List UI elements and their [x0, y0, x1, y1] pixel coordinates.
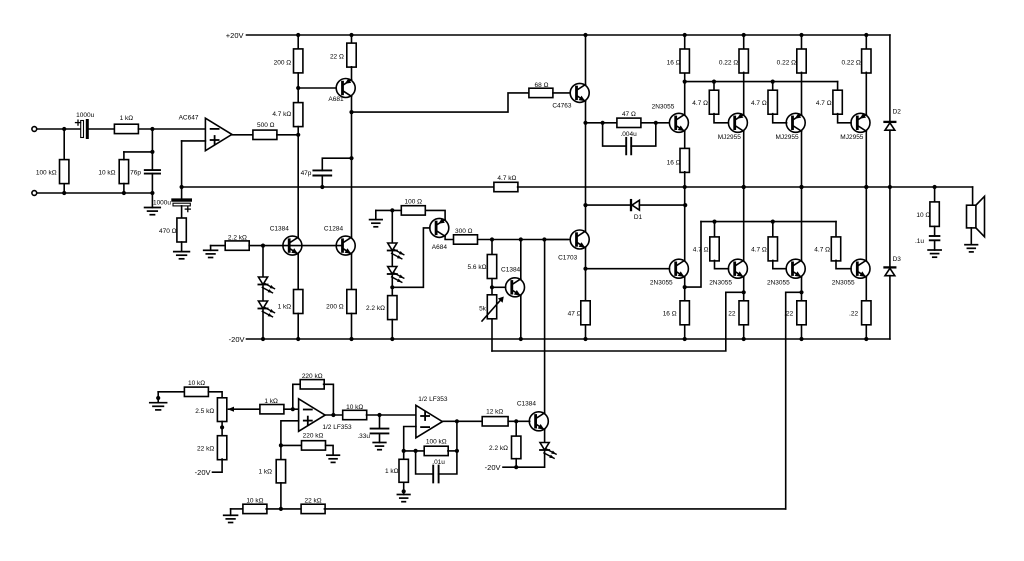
resistor 12 kOhm	[482, 417, 508, 426]
svg-text:2.2 kΩ: 2.2 kΩ	[366, 305, 385, 312]
node top bus tap #2	[771, 80, 775, 84]
wire top bias bus	[685, 81, 838, 83]
ground speaker	[965, 245, 978, 252]
wire bottom line to sense	[324, 508, 785, 510]
svg-text:2N3055: 2N3055	[767, 279, 790, 286]
transistor Q16 C1384 limiter (NPN)	[529, 412, 548, 431]
ground input	[145, 208, 161, 215]
wire 10k-22k bottom	[266, 508, 302, 510]
capacitor 1000u input	[89, 128, 115, 130]
ground 100R	[376, 209, 402, 211]
ground 1k opamp2	[397, 495, 410, 502]
svg-text:C1284: C1284	[324, 226, 344, 233]
svg-text:4.7 Ω: 4.7 Ω	[692, 100, 708, 107]
resistor 0.22 Ohm top #3	[865, 35, 867, 50]
svg-text:1/2 LF353: 1/2 LF353	[418, 396, 448, 403]
ground bottom line	[230, 509, 232, 515]
svg-text:D2: D2	[893, 109, 902, 116]
op-amp U1 AC647	[205, 118, 232, 151]
pot 5k arrow	[482, 299, 502, 322]
node sense tap 1	[742, 290, 746, 294]
wire bottom driver base row	[586, 268, 670, 270]
wire 68R to C4763 base	[553, 92, 570, 94]
LED chain B	[391, 210, 393, 243]
resistor 10 kOhm opamp1 out	[343, 410, 367, 419]
speaker SPK1	[972, 187, 974, 205]
svg-text:.1u: .1u	[915, 238, 924, 245]
wire 10k to pot	[208, 392, 222, 398]
potentiometer 5k	[491, 287, 493, 294]
resistor 500 Ohm	[253, 130, 277, 139]
wire A681 collector down	[351, 96, 353, 236]
node -rail dots left	[261, 337, 265, 341]
diode D2	[889, 35, 891, 122]
svg-text:500 Ω: 500 Ω	[257, 122, 275, 129]
resistor .22 Ohm emitter #3	[862, 301, 871, 325]
wire driver top collector	[684, 72, 686, 114]
svg-text:220 kΩ: 220 kΩ	[303, 433, 324, 440]
wire output-feedback rail right	[518, 186, 973, 188]
svg-text:.33u: .33u	[357, 433, 370, 440]
wire bottom bias bus	[701, 221, 836, 223]
ground 2.2k	[210, 246, 212, 251]
resistor 10 Ohm zobel	[934, 187, 936, 202]
svg-text:C1384: C1384	[270, 226, 290, 233]
resistor 470 Ohm	[181, 206, 183, 218]
wire opamp1 out	[325, 414, 343, 416]
svg-text:4.7 kΩ: 4.7 kΩ	[497, 175, 516, 182]
svg-text:1 kΩ: 1 kΩ	[385, 468, 399, 475]
resistor 4.7 Ohm top #3	[837, 82, 839, 91]
svg-text:4.7 Ω: 4.7 Ω	[751, 100, 767, 107]
wire A681 base	[298, 87, 336, 89]
ground 10k lower left	[157, 392, 159, 403]
LED limiter	[540, 443, 556, 459]
wire 100R to A684 emitter	[425, 210, 445, 219]
resistor 22 Ohm	[351, 35, 353, 43]
op-amp U3 1/2 LF353	[416, 405, 443, 438]
wire to 68R	[352, 93, 529, 112]
wire 12k to C1384 base	[508, 420, 530, 422]
resistor 200 Ohm VAS	[297, 35, 299, 49]
svg-text:1/2 LF353: 1/2 LF353	[322, 424, 352, 431]
node .33u tap	[377, 413, 381, 417]
svg-text:1 kΩ: 1 kΩ	[258, 469, 272, 476]
svg-text:A681: A681	[328, 96, 344, 103]
wire bottom driver collector	[684, 187, 686, 260]
svg-text:2N3055: 2N3055	[709, 279, 732, 286]
wire opamp2 out	[442, 420, 482, 422]
wire AC647 output	[232, 134, 253, 136]
wire opamp2 minus	[404, 427, 416, 451]
svg-text:C4763: C4763	[552, 103, 572, 110]
svg-text:C1703: C1703	[558, 254, 578, 261]
wire 200R to 4.7k	[297, 73, 299, 103]
ground .33u	[373, 443, 386, 450]
node 1k bottom junction	[279, 507, 283, 511]
transistor Q6 C4763 (NPN)	[570, 83, 589, 102]
resistor 4.7 Ohm bottom #3	[835, 222, 837, 238]
capacitor .004u	[603, 123, 627, 146]
ground zobel	[928, 250, 941, 257]
svg-text:.01u: .01u	[432, 459, 445, 466]
svg-text:C1384: C1384	[517, 401, 537, 408]
node A681 base tee	[296, 86, 300, 90]
svg-text:MJ2955: MJ2955	[718, 134, 742, 141]
svg-text:2.2 kΩ: 2.2 kΩ	[228, 234, 247, 241]
LED chain A	[262, 246, 264, 277]
svg-text:C1384: C1384	[501, 266, 521, 273]
transistor Q2 C1384 (NPN)	[283, 236, 302, 255]
node sense tap 2	[799, 290, 803, 294]
node opamp2 minus junction	[402, 449, 406, 453]
wire C4763 emitter down	[585, 101, 587, 205]
wire C4763 collector to +rail	[585, 35, 587, 85]
svg-text:0.22 Ω: 0.22 Ω	[841, 59, 860, 66]
resistor 10 kOhm input	[119, 160, 128, 184]
svg-text:68 Ω: 68 Ω	[535, 82, 549, 89]
svg-text:10 kΩ: 10 kΩ	[246, 497, 263, 504]
wire C1284 emitter to 200R	[351, 254, 353, 289]
resistor 4.7 Ohm bottom #1	[714, 222, 716, 238]
resistor 10 kOhm bottom	[231, 508, 244, 510]
svg-text:76p: 76p	[130, 169, 141, 176]
svg-text:100 Ω: 100 Ω	[405, 198, 423, 205]
resistor 2.2 kOhm LED chain	[391, 287, 393, 295]
node bottom bus tap #2	[771, 220, 775, 224]
svg-text:+20V: +20V	[226, 31, 244, 40]
svg-text:-20V: -20V	[229, 335, 245, 344]
svg-text:.004u: .004u	[620, 131, 637, 138]
wire 1k to opamp	[138, 128, 205, 130]
potentiometer 2.5 kOhm	[217, 398, 226, 422]
transistor Q8 MJ2955 #1 (PNP)	[743, 72, 745, 114]
node input junctions	[62, 127, 66, 131]
wire C1703 emitter	[585, 248, 587, 301]
resistor 1 kOhm opamp2	[403, 451, 405, 459]
node opamp1 output	[331, 413, 335, 417]
resistor 16 Ohm top	[684, 35, 686, 50]
svg-text:-20V: -20V	[195, 468, 211, 477]
node 12k right	[514, 419, 518, 423]
svg-text:22 kΩ: 22 kΩ	[197, 446, 214, 453]
wire 4.7k to 500R node	[297, 127, 299, 135]
resistor 220 kOhm feedback top	[293, 384, 301, 409]
resistor 200 Ohm first stage	[347, 290, 356, 314]
transistor Q11 C1703 driver bottom (NPN)	[545, 239, 570, 241]
wire bottom bias feed up	[685, 222, 701, 288]
node top bias bus tap	[683, 80, 687, 84]
wire 1k to opamp minus	[284, 408, 299, 410]
svg-text:1 kΩ: 1 kΩ	[278, 304, 292, 311]
svg-text:2N3055: 2N3055	[832, 279, 855, 286]
wire limiter emitter to LED	[544, 430, 546, 443]
diode D3	[889, 187, 891, 267]
resistor 16 Ohm bottom	[680, 301, 689, 325]
resistor 2.2 kOhm limiter	[515, 421, 517, 436]
svg-text:.22: .22	[849, 311, 858, 318]
wire output-feedback rail left	[182, 186, 495, 188]
svg-text:47p: 47p	[301, 170, 312, 177]
resistor .22 Ohm emitter #2	[797, 301, 806, 325]
resistor 100 kOhm input	[63, 129, 65, 160]
resistor 300 Ohm	[454, 235, 478, 244]
wire LED to -20V	[503, 452, 545, 468]
svg-text:5.6 kΩ: 5.6 kΩ	[468, 264, 487, 271]
capacitor 1000u feedback	[181, 187, 183, 198]
svg-text:2.5 kΩ: 2.5 kΩ	[195, 408, 214, 415]
svg-text:220 kΩ: 220 kΩ	[302, 373, 323, 380]
resistor 5.6 kOhm	[491, 240, 493, 255]
resistor 68 Ohm	[529, 88, 553, 97]
svg-text:A684: A684	[432, 244, 448, 251]
node 47p tap	[349, 156, 353, 160]
svg-text:-20V: -20V	[485, 463, 501, 472]
wire driver top emitter	[684, 131, 686, 149]
resistor 100 kOhm feedback	[404, 450, 425, 452]
node 68R tap	[349, 110, 353, 114]
svg-text:200 Ω: 200 Ω	[274, 59, 292, 66]
svg-text:100 kΩ: 100 kΩ	[36, 169, 57, 176]
wire +20V rail	[247, 34, 890, 36]
svg-text:47 Ω: 47 Ω	[568, 311, 582, 318]
resistor 0.22 Ohm top #2	[801, 35, 803, 50]
resistor 1 kOhm input	[114, 124, 138, 133]
transistor Q9 MJ2955 #2 (PNP)	[801, 72, 803, 114]
wire sense 1 to 5k pot	[492, 292, 744, 351]
node bottom bus tap #1	[712, 220, 716, 224]
capacitor .1u zobel	[934, 226, 936, 236]
svg-text:4.7 Ω: 4.7 Ω	[693, 247, 709, 254]
wire 500R to VAS node	[277, 134, 298, 136]
node 100k right	[455, 449, 459, 453]
svg-text:2.2 kΩ: 2.2 kΩ	[489, 445, 508, 452]
svg-text:MJ2955: MJ2955	[776, 134, 800, 141]
wire bias collector	[520, 240, 522, 279]
op-amp U2 1/2 LF353	[299, 399, 326, 432]
node 47R left	[583, 121, 587, 125]
resistor 1 kOhm opamp1 plus	[280, 445, 282, 459]
ground 470R	[174, 252, 190, 259]
node opamp1 plus junction	[279, 443, 283, 447]
svg-text:2N3055: 2N3055	[652, 103, 675, 110]
svg-text:4.7 Ω: 4.7 Ω	[751, 247, 767, 254]
wire -20V rail	[247, 338, 890, 340]
node VAS input	[296, 133, 300, 137]
svg-text:10 kΩ: 10 kΩ	[346, 404, 363, 411]
resistor 4.7 Ohm top #2	[772, 82, 774, 91]
node 10k top tee	[150, 150, 154, 154]
resistor 2.2 kOhm first stage	[211, 245, 226, 247]
svg-text:2N3055: 2N3055	[650, 279, 673, 286]
resistor 4.7 Ohm top #1	[713, 82, 715, 91]
svg-text:MJ2955: MJ2955	[840, 134, 864, 141]
svg-text:0.22 Ω: 0.22 Ω	[719, 59, 738, 66]
svg-text:4.7 Ω: 4.7 Ω	[816, 100, 832, 107]
resistor 0.22 Ohm top #1	[743, 35, 745, 50]
resistor 4.7 kOhm feedback	[494, 182, 518, 191]
wire input bottom	[37, 192, 153, 194]
svg-text:47 Ω: 47 Ω	[622, 111, 636, 118]
svg-text:100 kΩ: 100 kΩ	[426, 438, 447, 445]
resistor 22 Ohm emitter #1	[739, 301, 748, 325]
node output to zobel	[933, 185, 937, 189]
svg-text:10 kΩ: 10 kΩ	[188, 380, 205, 387]
capacitor .01u loop	[414, 449, 418, 453]
transistor Q14 2N3055 output #2 (NPN)	[801, 187, 803, 260]
svg-text:0.22 Ω: 0.22 Ω	[777, 59, 796, 66]
svg-text:1 kΩ: 1 kΩ	[120, 115, 134, 122]
node base junction	[261, 244, 265, 248]
wire A684 base	[392, 228, 430, 287]
resistor 100 Ohm	[401, 206, 425, 215]
node C1703 emitter to base row	[583, 267, 587, 271]
resistor 1 kOhm opamp input	[260, 405, 284, 414]
svg-text:16 Ω: 16 Ω	[667, 59, 681, 66]
resistor 47 Ohm bottom	[581, 301, 590, 325]
wire bottom driver emitter	[684, 277, 686, 301]
node pot bottom	[221, 422, 223, 437]
svg-text:D1: D1	[634, 214, 643, 221]
svg-text:4.7 Ω: 4.7 Ω	[814, 247, 830, 254]
svg-text:10 Ω: 10 Ω	[916, 212, 930, 219]
svg-text:300 Ω: 300 Ω	[455, 228, 473, 235]
wire opamp1 plus	[281, 421, 299, 446]
svg-text:1000u: 1000u	[76, 112, 94, 119]
node feedback tap	[180, 185, 184, 189]
input terminal J1	[32, 127, 37, 132]
svg-text:470 Ω: 470 Ω	[159, 228, 177, 235]
resistor 4.7 kOhm VAS	[294, 103, 303, 127]
wire 22k to -20V	[213, 459, 223, 472]
transistor Q15 2N3055 output #3 (NPN)	[865, 187, 867, 260]
node opamp2 output	[455, 419, 459, 423]
capacitor .33u	[379, 415, 381, 429]
wire limiter collector up to bias row	[544, 240, 546, 413]
resistor 220 kOhm to ground	[281, 444, 302, 446]
svg-text:12 kΩ: 12 kΩ	[486, 409, 503, 416]
node LED chain B top	[390, 208, 394, 212]
svg-text:22 Ω: 22 Ω	[330, 54, 344, 61]
wire C1703 collector up	[585, 205, 587, 231]
node opamp1 minus junction	[291, 407, 295, 411]
svg-text:16 Ω: 16 Ω	[667, 160, 681, 167]
resistor 1 kOhm first stage	[294, 290, 303, 314]
capacitor 47p	[322, 158, 351, 170]
node bottom bias feed	[683, 285, 687, 289]
svg-text:10 kΩ: 10 kΩ	[98, 169, 115, 176]
node top bus tap #1	[712, 80, 716, 84]
transistor Q5 C1384 bias (NPN)	[492, 286, 506, 288]
wire base bus first stage	[249, 245, 342, 247]
transistor Q1 A681 (PNP)	[351, 67, 353, 80]
wire A684 collector to 300R	[445, 236, 453, 239]
wire VAS node down to C1384 collector	[297, 135, 299, 237]
transistor Q12 2N3055 driver bottom (NPN)	[669, 259, 688, 278]
wire input top	[37, 128, 81, 130]
wire 100k to output	[456, 421, 458, 451]
resistor 16 Ohm top emitter	[680, 148, 689, 172]
wire bias emitter to -rail	[520, 296, 522, 339]
svg-text:1000u: 1000u	[153, 199, 171, 206]
resistor 22 kOhm lower left	[217, 436, 226, 460]
resistor 47 Ohm driver	[617, 118, 641, 127]
resistor 4.7 Ohm bottom #2	[772, 222, 774, 238]
resistor 10 kOhm lower left	[158, 391, 184, 393]
wire AC647 plus input	[182, 140, 206, 142]
wire sense 2 to bottom line	[786, 292, 802, 509]
wire C1384 emitter to 1k	[297, 254, 299, 289]
transistor Q13 2N3055 output #1 (NPN)	[743, 187, 745, 260]
ground 220k	[327, 455, 340, 462]
transistor Q4 A684 (PNP)	[430, 218, 449, 237]
svg-text:5k: 5k	[479, 305, 487, 312]
svg-text:22 kΩ: 22 kΩ	[305, 497, 322, 504]
svg-text:200 Ω: 200 Ω	[326, 304, 344, 311]
svg-text:1 kΩ: 1 kΩ	[264, 398, 278, 405]
svg-text:16 Ω: 16 Ω	[663, 311, 677, 318]
pot 2.5k wiper arrow	[229, 408, 260, 410]
svg-text:22: 22	[728, 311, 736, 318]
node bias row dots	[490, 237, 494, 241]
transistor Q3 C1284 (NPN)	[336, 236, 355, 255]
svg-text:AC647: AC647	[179, 114, 199, 121]
node 22R top	[349, 33, 353, 37]
transistor Q7 2N3055 driver top (NPN)	[669, 113, 688, 132]
node 200R top	[296, 33, 300, 37]
wire bias row	[478, 239, 568, 241]
diode D1	[586, 204, 632, 206]
transistor Q10 MJ2955 #3 (PNP)	[865, 72, 867, 114]
wire to opamp2	[367, 414, 416, 416]
capacitor 76p	[151, 129, 153, 170]
svg-text:4.7 kΩ: 4.7 kΩ	[272, 111, 291, 118]
svg-text:D3: D3	[893, 256, 902, 263]
node chain B bottom	[390, 285, 394, 289]
wire 47R row	[586, 122, 618, 124]
resistor 22 kOhm bottom	[301, 504, 325, 513]
input terminal J2	[32, 191, 37, 196]
node bias base junction	[490, 285, 494, 289]
